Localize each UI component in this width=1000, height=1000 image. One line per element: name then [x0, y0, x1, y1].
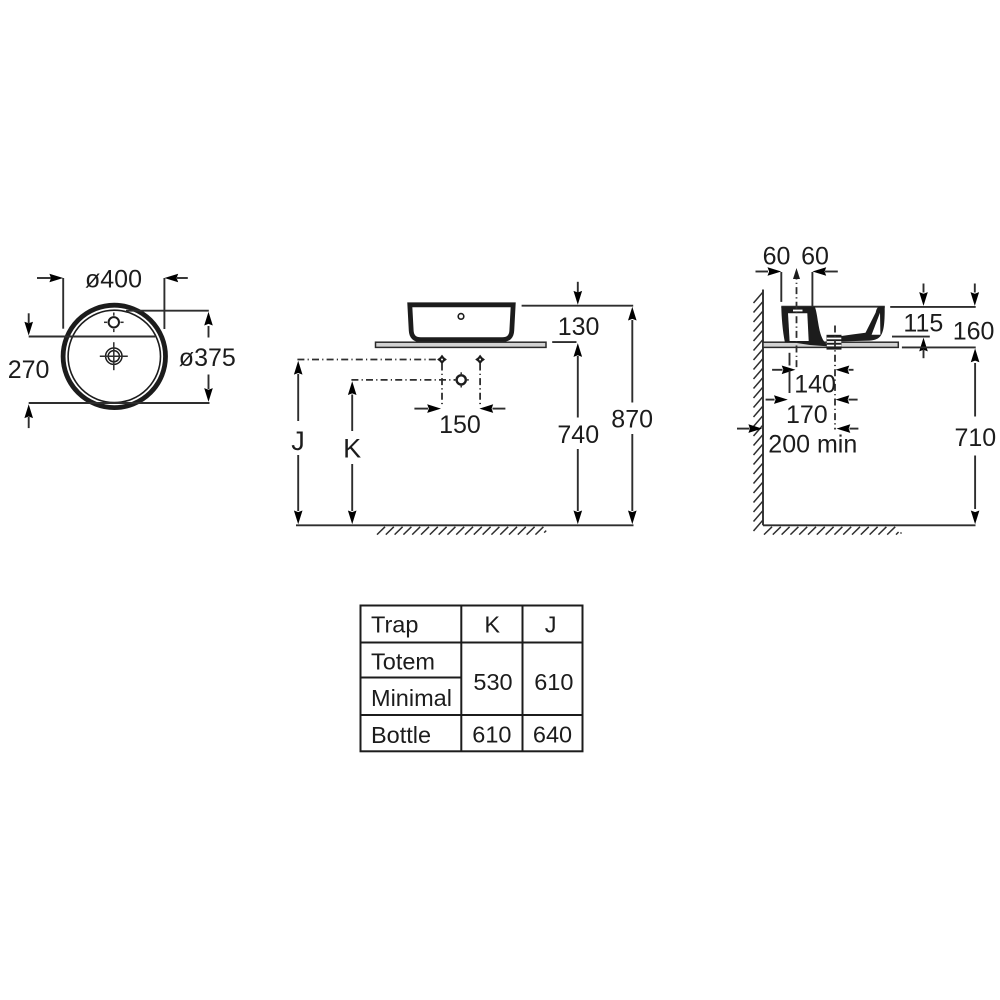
svg-text:640: 640: [533, 721, 572, 747]
svg-text:160: 160: [953, 318, 995, 346]
svg-text:170: 170: [786, 401, 828, 429]
svg-text:130: 130: [558, 313, 600, 341]
svg-text:60: 60: [763, 242, 791, 270]
svg-text:740: 740: [557, 421, 599, 449]
svg-text:K: K: [484, 612, 500, 638]
svg-text:140: 140: [794, 371, 836, 399]
svg-text:530: 530: [473, 669, 512, 695]
svg-text:Trap: Trap: [371, 612, 418, 638]
svg-text:870: 870: [611, 406, 653, 434]
svg-text:K: K: [343, 434, 361, 464]
svg-text:115: 115: [903, 309, 943, 337]
svg-text:J: J: [291, 426, 305, 456]
svg-text:Totem: Totem: [371, 648, 435, 674]
svg-text:150: 150: [439, 411, 481, 439]
svg-text:ø400: ø400: [85, 266, 142, 294]
svg-text:200 min: 200 min: [768, 430, 857, 458]
svg-text:J: J: [545, 612, 557, 638]
svg-text:Minimal: Minimal: [371, 685, 452, 711]
svg-text:ø375: ø375: [179, 344, 236, 372]
svg-text:270: 270: [8, 356, 50, 384]
svg-text:60: 60: [801, 242, 829, 270]
svg-text:610: 610: [472, 721, 511, 747]
svg-text:610: 610: [534, 669, 573, 695]
svg-text:710: 710: [955, 424, 997, 452]
svg-text:Bottle: Bottle: [371, 722, 431, 748]
